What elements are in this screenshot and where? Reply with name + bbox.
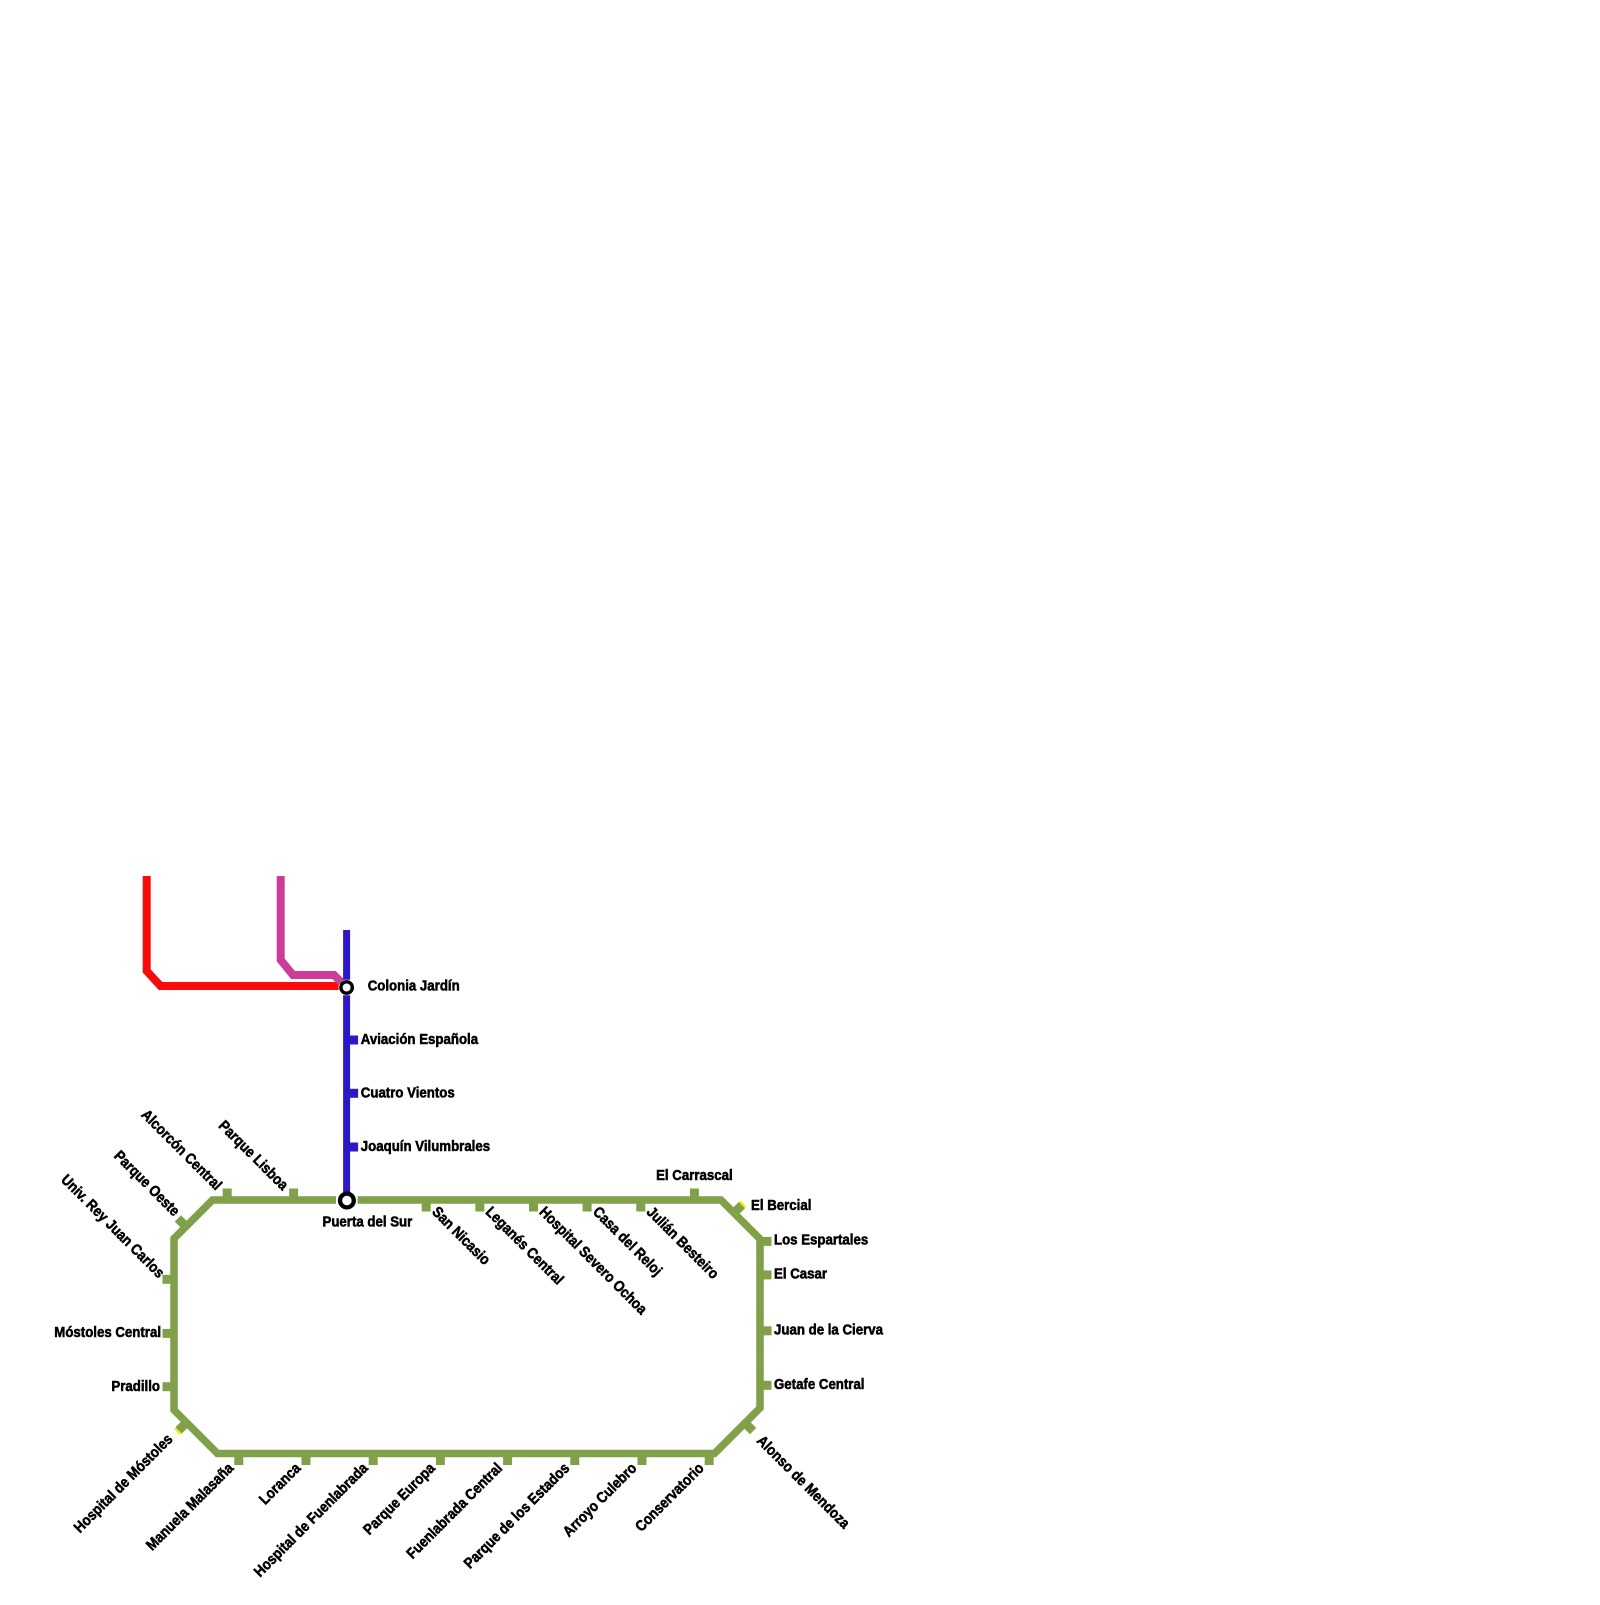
svg-text:Joaquín Vilumbrales: Joaquín Vilumbrales [361, 1138, 490, 1155]
svg-text:Cuatro Vientos: Cuatro Vientos [361, 1085, 455, 1102]
svg-text:El Casar: El Casar [774, 1265, 827, 1282]
svg-text:Conservatorio: Conservatorio [632, 1460, 708, 1536]
svg-text:Parque Lisboa: Parque Lisboa [215, 1117, 292, 1194]
svg-text:El Bercial: El Bercial [751, 1197, 811, 1214]
svg-text:Puerta del Sur: Puerta del Sur [323, 1213, 413, 1230]
svg-text:Juan de la Cierva: Juan de la Cierva [774, 1321, 884, 1338]
svg-text:El Carrascal: El Carrascal [656, 1167, 733, 1184]
svg-text:Pradillo: Pradillo [111, 1378, 160, 1395]
svg-text:Aviación Española: Aviación Española [361, 1031, 479, 1048]
svg-text:Hospital Severo Ochoa: Hospital Severo Ochoa [536, 1204, 651, 1319]
svg-text:Hospital de Fuenlabrada: Hospital de Fuenlabrada [251, 1459, 372, 1580]
svg-text:Getafe Central: Getafe Central [774, 1376, 865, 1393]
svg-text:Los Espartales: Los Espartales [774, 1231, 868, 1248]
svg-text:Loranca: Loranca [256, 1459, 305, 1508]
svg-text:Alonso de Mendoza: Alonso de Mendoza [753, 1432, 853, 1532]
svg-text:Parque Oeste: Parque Oeste [110, 1147, 182, 1219]
svg-text:Móstoles Central: Móstoles Central [54, 1324, 161, 1341]
svg-text:Colonia Jardín: Colonia Jardín [368, 978, 460, 995]
svg-text:Hospital de Móstoles: Hospital de Móstoles [71, 1431, 177, 1537]
svg-text:Manuela Malasaña: Manuela Malasaña [143, 1459, 238, 1554]
